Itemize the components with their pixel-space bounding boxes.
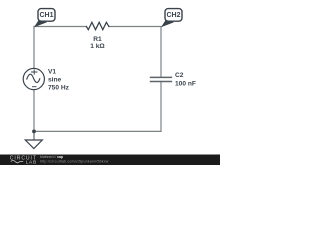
svg-text:CH1: CH1	[39, 12, 53, 19]
wire right vertical top	[160, 27, 162, 78]
ground symbol triangle	[25, 140, 42, 149]
watermark band	[0, 155, 220, 166]
wire top-right horizontal segment	[109, 26, 161, 28]
svg-text:http://circuitlab.com/c/5punka: http://circuitlab.com/c/5punkann/5bkxw	[40, 160, 109, 164]
probe CH1 tail	[34, 19, 47, 27]
resistor R1	[86, 22, 109, 29]
svg-text:C2: C2	[175, 72, 184, 79]
wire ground stub	[33, 131, 35, 139]
svg-text:sine: sine	[48, 77, 62, 84]
wire right vertical bottom	[160, 82, 162, 132]
svg-text:V1: V1	[48, 68, 56, 75]
wire left vertical bottom	[33, 90, 35, 132]
svg-text:LAB: LAB	[26, 159, 37, 165]
CircuitLab logo line 2 sine glyph	[11, 160, 23, 162]
wire bottom horizontal run	[34, 130, 161, 132]
capacitor C2 top plate	[151, 76, 172, 78]
wire top-left horizontal	[34, 26, 86, 28]
probe CH2 tail	[161, 19, 174, 27]
svg-text:100 nF: 100 nF	[175, 81, 196, 88]
svg-text:R1: R1	[93, 36, 102, 43]
probe CH2 bubble	[165, 9, 182, 22]
V1 sine wave	[27, 74, 40, 82]
V1 plus sign	[32, 70, 37, 74]
svg-text:750 Hz: 750 Hz	[48, 85, 70, 92]
wire left vertical top	[33, 27, 35, 69]
junction node dot	[32, 130, 36, 134]
V1 minus sign	[33, 86, 37, 88]
capacitor C2 bottom plate	[151, 81, 172, 83]
probe CH1 bubble	[38, 9, 55, 22]
svg-text:CH2: CH2	[166, 12, 180, 19]
voltage source V1 circle	[23, 68, 44, 89]
svg-text:1 kΩ: 1 kΩ	[90, 43, 105, 50]
